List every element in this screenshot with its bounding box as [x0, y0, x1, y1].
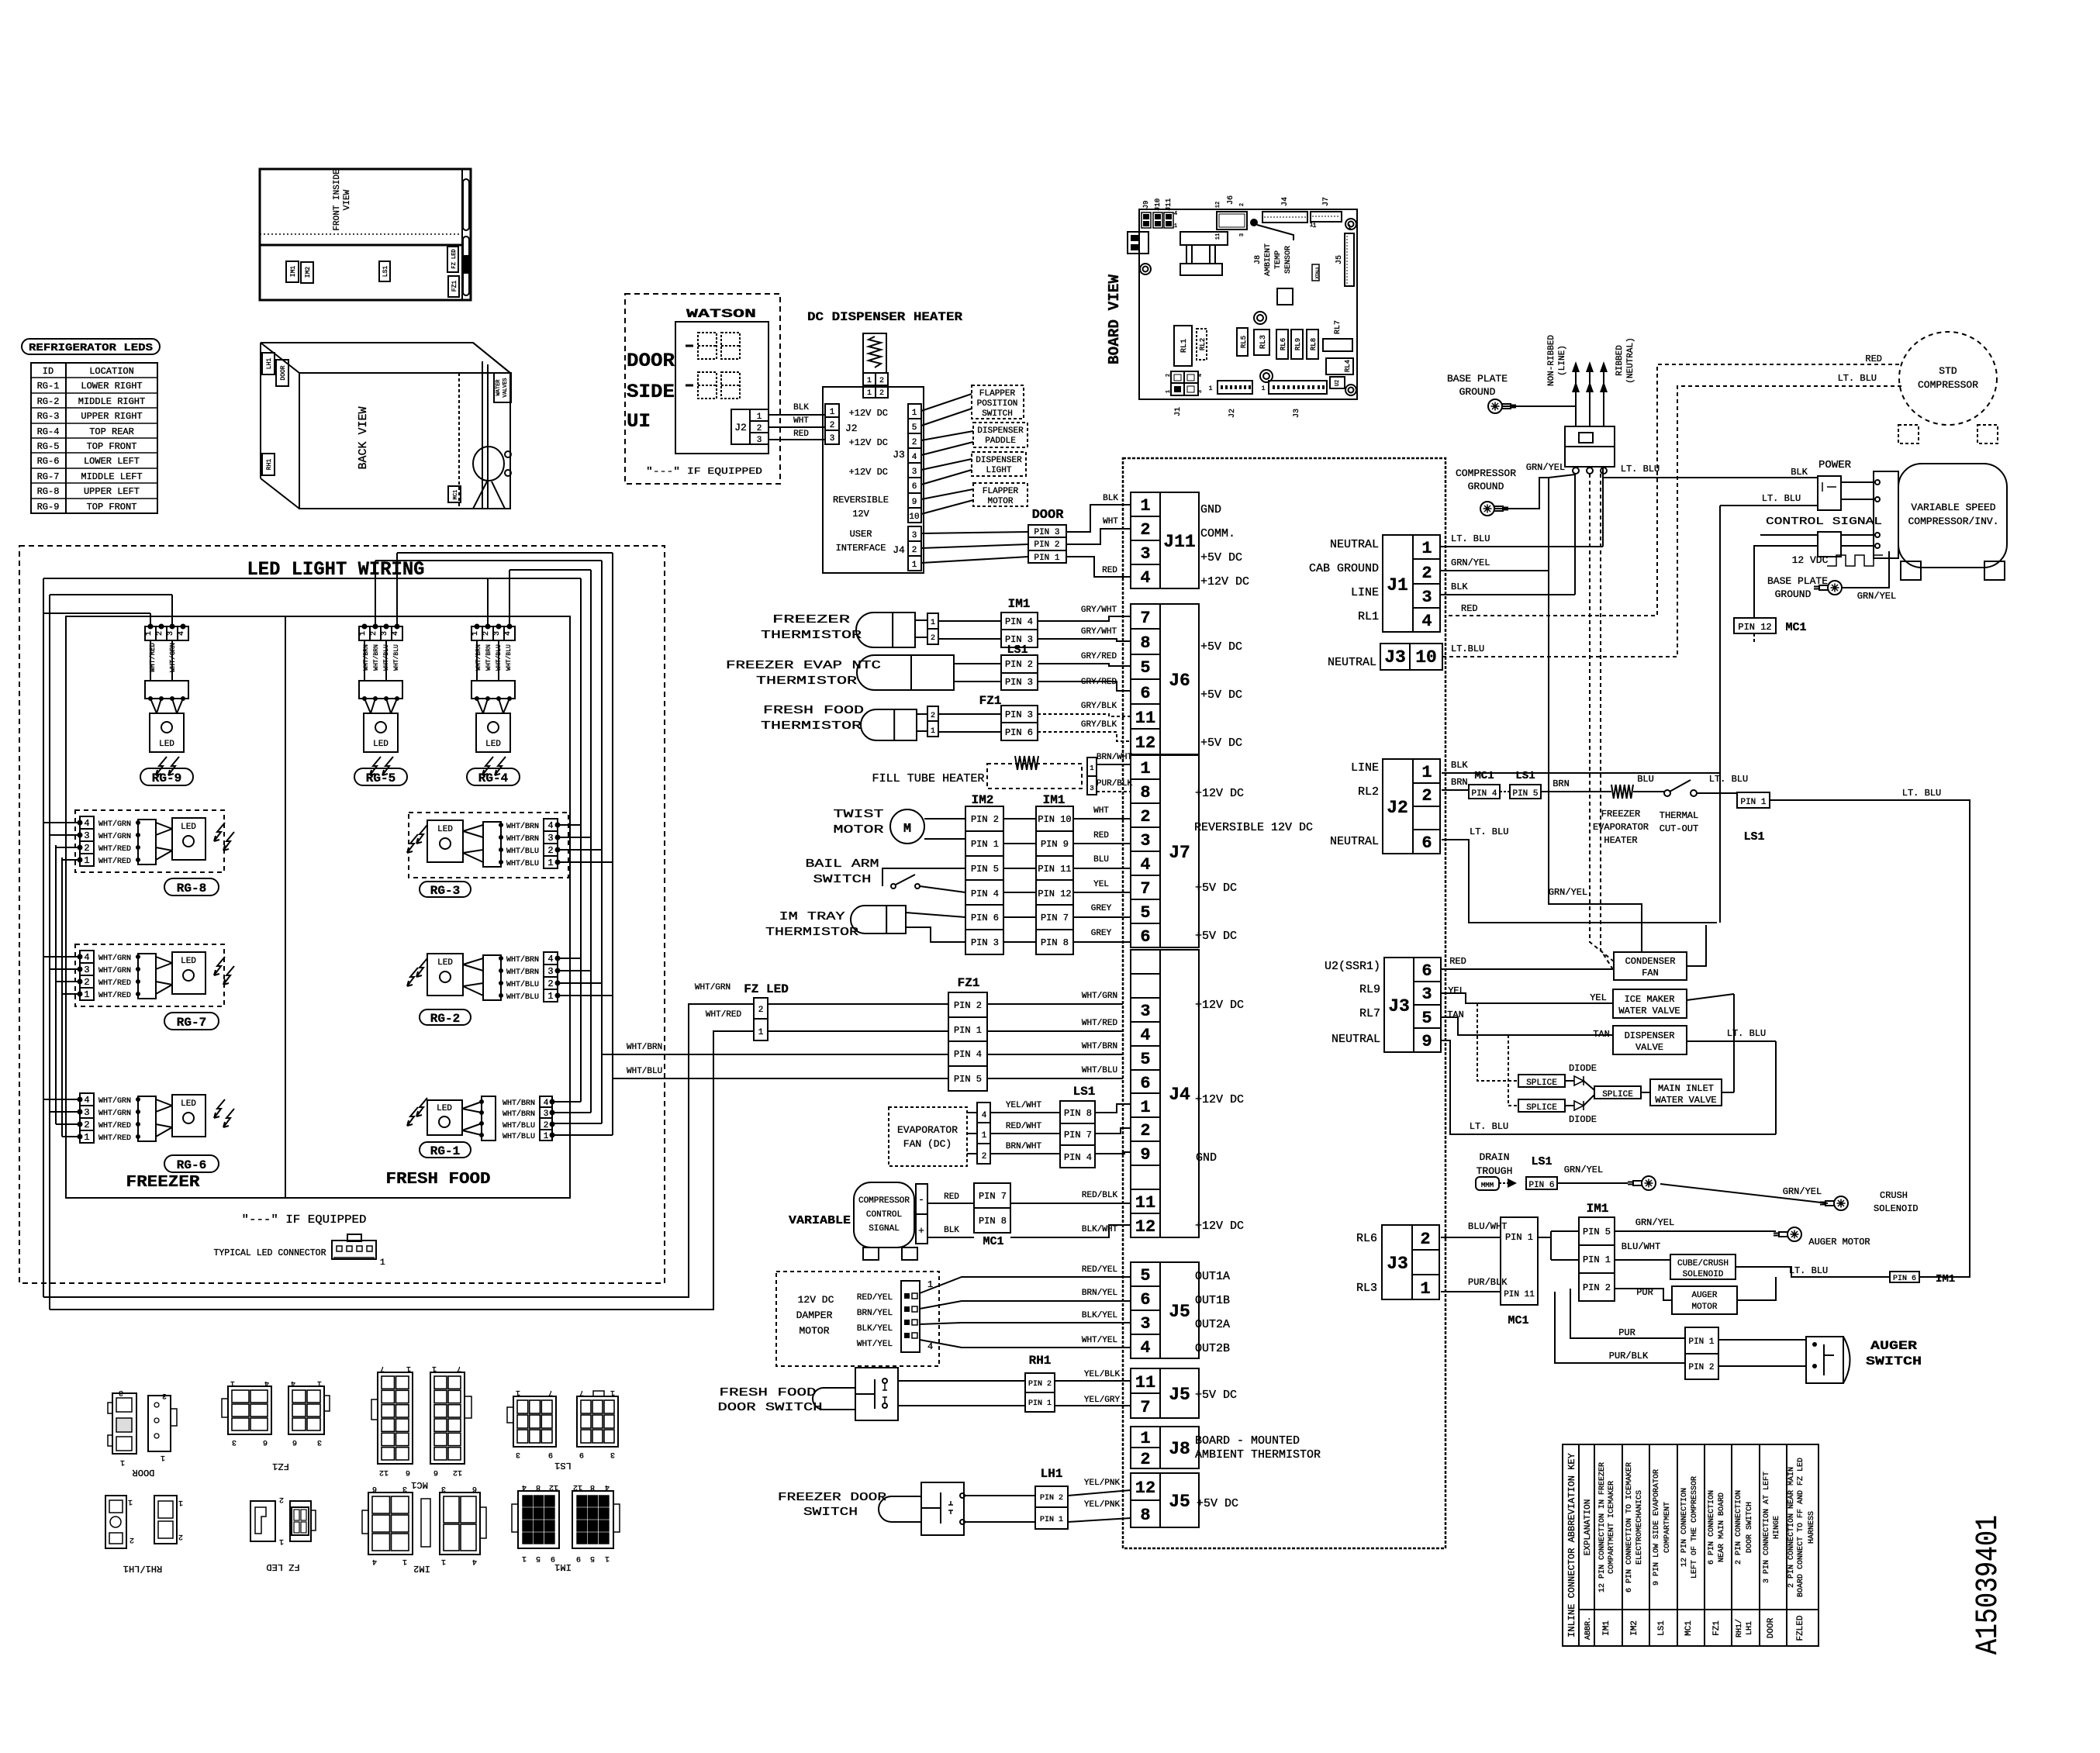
cube crush to pin6 im1: [1736, 1267, 1890, 1277]
svg-text:FREEZER: FREEZER: [1601, 809, 1640, 820]
stubs to RG-7: [43, 956, 80, 958]
J5 second connector: [1131, 1368, 1199, 1418]
svg-text:RG-2: RG-2: [37, 396, 60, 407]
svg-text:3: 3: [610, 1450, 615, 1458]
inline connector abbreviation key table: [1563, 1444, 1819, 1646]
svg-text:FRESH FOOD: FRESH FOOD: [720, 1386, 817, 1399]
svg-text:11: 11: [1215, 233, 1221, 240]
svg-text:DOOR: DOOR: [627, 350, 675, 372]
svg-text:WHT/BRN: WHT/BRN: [506, 955, 539, 964]
svg-text:LED: LED: [485, 740, 501, 749]
svg-text:WHT/GRN: WHT/GRN: [98, 820, 131, 829]
svg-text:LIGHT: LIGHT: [986, 466, 1011, 475]
ic: [1277, 288, 1293, 305]
svg-text:YEL/PNK: YEL/PNK: [1084, 1479, 1121, 1488]
svg-text:8: 8: [1140, 633, 1150, 653]
svg-text:RG-7: RG-7: [177, 1016, 206, 1030]
svg-text:WHT/BLU: WHT/BLU: [383, 644, 390, 671]
svg-text:PIN 6: PIN 6: [971, 913, 999, 923]
svg-text:-: -: [918, 1194, 924, 1206]
svg-text:9: 9: [548, 1450, 553, 1458]
svg-text:FRESH FOOD: FRESH FOOD: [763, 704, 864, 717]
svg-text:RL8: RL8: [1310, 338, 1318, 350]
pcb outline: [1139, 209, 1357, 399]
svg-text:1: 1: [1421, 763, 1432, 782]
svg-text:2: 2: [547, 978, 553, 989]
svg-text:+5V DC: +5V DC: [1200, 551, 1242, 564]
svg-text:RG-1: RG-1: [430, 1144, 460, 1158]
svg-text:ABBR.: ABBR.: [1584, 1617, 1593, 1640]
svg-text:1: 1: [1348, 224, 1352, 231]
svg-text:CAB GROUND: CAB GROUND: [1309, 562, 1379, 575]
svg-text:12: 12: [573, 1482, 582, 1491]
svg-text:IM1: IM1: [554, 1561, 572, 1572]
condenser fan: [1614, 952, 1687, 980]
svg-text:2: 2: [84, 843, 89, 854]
J3 ssr connector: [1384, 958, 1441, 1052]
svg-text:MOTOR: MOTOR: [987, 497, 1013, 506]
svg-text:SENSOR: SENSOR: [1284, 246, 1293, 274]
J4 pcb connector: [1262, 212, 1307, 223]
svg-text:4: 4: [547, 820, 553, 831]
RL4: [1326, 358, 1353, 374]
svg-text:4: 4: [291, 1379, 295, 1387]
svg-text:3: 3: [84, 830, 89, 841]
J6 pcb connector: [1217, 212, 1247, 229]
svg-text:UI: UI: [627, 410, 651, 433]
svg-text:3: 3: [1421, 985, 1432, 1004]
MC1 to IM1 wires: [1538, 1237, 1551, 1238]
svg-text:7: 7: [548, 1388, 553, 1396]
relays RL5 RL3 RL6 RL9 RL8: [1237, 328, 1248, 356]
svg-text:7: 7: [1140, 1398, 1150, 1417]
svg-text:+12V DC: +12V DC: [849, 437, 888, 448]
svg-text:2: 2: [370, 631, 378, 636]
svg-text:RL4: RL4: [1344, 360, 1352, 372]
led module RG-8: [75, 810, 224, 872]
svg-text:BLU: BLU: [1093, 855, 1109, 864]
svg-text:ICE MAKER: ICE MAKER: [1625, 994, 1675, 1005]
svg-text:WHT/BRN: WHT/BRN: [506, 834, 539, 844]
svg-text:12: 12: [549, 1482, 558, 1491]
led module RG-5: [359, 626, 402, 640]
svg-text:1: 1: [84, 1132, 89, 1143]
svg-text:DC DISPENSER HEATER: DC DISPENSER HEATER: [807, 310, 962, 324]
svg-text:LED: LED: [437, 958, 453, 968]
svg-text:6: 6: [912, 482, 917, 492]
svg-text:LH1: LH1: [266, 358, 273, 370]
svg-text:LT. BLU: LT. BLU: [1762, 493, 1801, 504]
svg-text:J3: J3: [1388, 996, 1410, 1016]
svg-text:PIN 1: PIN 1: [971, 839, 999, 850]
svg-text:9: 9: [1140, 1145, 1150, 1165]
long wht/brn wht/blu wires to J4: [602, 1054, 948, 1055]
left bus verticals: [43, 578, 44, 1297]
connector FZ1 pictogram: [228, 1386, 271, 1434]
svg-text:BASE PLATE: BASE PLATE: [1447, 373, 1508, 385]
stubs to RG-2: [557, 958, 581, 959]
svg-text:7: 7: [457, 1364, 461, 1372]
IM1 output wires to J7: [1073, 818, 1131, 820]
svg-text:YEL/BLK: YEL/BLK: [1084, 1370, 1121, 1379]
evaporator fan: [889, 1107, 967, 1166]
svg-text:PUR/BLK: PUR/BLK: [1097, 779, 1133, 789]
svg-text:DOOR SWITCH: DOOR SWITCH: [718, 1401, 823, 1414]
svg-text:RG-5: RG-5: [366, 771, 395, 785]
svg-text:THERMISTOR: THERMISTOR: [765, 926, 858, 939]
svg-text:2: 2: [1421, 564, 1432, 583]
svg-text:PIN 2: PIN 2: [1005, 659, 1033, 670]
svg-text:LT. BLU: LT. BLU: [1451, 533, 1490, 544]
label MC1: [448, 486, 461, 502]
three wires with up arrows: [1575, 371, 1577, 426]
led module RG-6: [80, 1093, 94, 1143]
svg-text:LED LIGHT WIRING: LED LIGHT WIRING: [247, 558, 425, 581]
svg-text:9: 9: [551, 1554, 555, 1562]
svg-text:1: 1: [982, 1131, 987, 1140]
svg-text:WHT/RED: WHT/RED: [98, 1121, 131, 1130]
svg-text:IM1: IM1: [1043, 793, 1066, 807]
RG-5 wires up: [375, 561, 376, 626]
svg-text:THERMISTOR: THERMISTOR: [761, 719, 862, 733]
svg-text:DOOR: DOOR: [1032, 508, 1065, 523]
svg-text:J2: J2: [734, 422, 747, 433]
wires watson to UI: [769, 414, 825, 416]
dispenser light: [972, 452, 1026, 476]
svg-text:2 PIN CONNECTION NEAR MAIN: 2 PIN CONNECTION NEAR MAIN: [1787, 1467, 1796, 1588]
svg-text:LS1: LS1: [1531, 1155, 1552, 1168]
svg-text:GRY/BLK: GRY/BLK: [1081, 720, 1117, 730]
svg-text:FLAPPER: FLAPPER: [979, 389, 1016, 399]
inner box: [66, 616, 570, 1198]
svg-text:FZ LED: FZ LED: [266, 1561, 299, 1572]
UI J2 pins: [825, 404, 839, 444]
svg-text:2: 2: [912, 438, 917, 447]
svg-text:1: 1: [120, 1458, 125, 1466]
svg-text:GRY/RED: GRY/RED: [1081, 678, 1117, 687]
svg-text:J4: J4: [1169, 1085, 1190, 1105]
svg-text:FZ LED: FZ LED: [451, 249, 458, 268]
svg-text:BLK: BLK: [1791, 467, 1808, 478]
svg-text:12: 12: [379, 1468, 389, 1476]
svg-text:U2(SSR1): U2(SSR1): [1325, 960, 1380, 973]
svg-text:CONTROL: CONTROL: [866, 1210, 902, 1220]
svg-text:WHT/RED: WHT/RED: [98, 1134, 131, 1143]
svg-text:GRN/YEL: GRN/YEL: [1635, 1217, 1674, 1228]
svg-text:GREY: GREY: [1091, 904, 1112, 913]
svg-text:3: 3: [1421, 588, 1432, 607]
RL7: [1323, 339, 1352, 351]
svg-text:U2: U2: [1335, 380, 1341, 386]
connector label IM1: [286, 261, 299, 282]
svg-text:LED: LED: [437, 825, 453, 834]
svg-text:WHT/GRN: WHT/GRN: [1082, 992, 1117, 1001]
svg-text:BLK: BLK: [944, 1226, 959, 1235]
svg-text:GND: GND: [1200, 503, 1221, 516]
svg-text:1: 1: [178, 1498, 183, 1506]
label WATER VALVES: [494, 373, 511, 402]
svg-text:OUT2A: OUT2A: [1195, 1318, 1230, 1331]
svg-text:VALVE: VALVE: [1635, 1042, 1663, 1053]
led module RG-4: [471, 626, 515, 640]
svg-text:1: 1: [1140, 1098, 1150, 1117]
svg-text:BLU/WHT: BLU/WHT: [1622, 1241, 1660, 1252]
svg-text:PIN 1: PIN 1: [1505, 1232, 1533, 1243]
svg-text:UPPER LEFT: UPPER LEFT: [84, 486, 140, 497]
svg-text:MC1: MC1: [1785, 621, 1806, 634]
svg-text:4: 4: [84, 952, 89, 963]
svg-text:DISPENSER: DISPENSER: [976, 456, 1022, 465]
svg-text:WHT/BLU: WHT/BLU: [506, 992, 539, 1002]
svg-text:BRN/YEL: BRN/YEL: [1082, 1289, 1117, 1298]
connector FZ LED pictogram: [250, 1501, 275, 1541]
svg-text:1: 1: [128, 1497, 133, 1506]
svg-text:6: 6: [1421, 833, 1432, 853]
svg-text:J5: J5: [1169, 1492, 1190, 1512]
svg-text:HINGE: HINGE: [1773, 1516, 1781, 1539]
svg-text:LT. BLU: LT. BLU: [1902, 788, 1941, 799]
svg-text:PIN 7: PIN 7: [979, 1191, 1007, 1202]
svg-text:WHT: WHT: [1103, 517, 1118, 526]
led module RG-9: [145, 626, 188, 640]
svg-text:PIN 5: PIN 5: [971, 864, 999, 875]
svg-text:FZ1: FZ1: [451, 281, 458, 292]
svg-text:YEL: YEL: [1093, 880, 1109, 889]
top bus wires: [397, 552, 613, 554]
svg-text:BLK/YEL: BLK/YEL: [857, 1324, 893, 1334]
svg-text:LINE: LINE: [1351, 586, 1379, 599]
svg-text:12 PIN CONNECTION IN FREEZER: 12 PIN CONNECTION IN FREEZER: [1598, 1462, 1607, 1593]
svg-text:LH1: LH1: [1041, 1467, 1063, 1481]
user interface box: [823, 387, 924, 573]
stubs to RG-8: [43, 822, 80, 823]
svg-text:NON-RIBBED: NON-RIBBED: [1547, 335, 1556, 386]
svg-text:RH1/LH1: RH1/LH1: [123, 1563, 162, 1574]
svg-text:LS1: LS1: [1515, 770, 1535, 782]
UI J3 pins: [908, 404, 921, 523]
svg-text:WHT/GRN: WHT/GRN: [98, 1109, 131, 1118]
svg-text:PIN 2: PIN 2: [954, 1000, 982, 1011]
svg-text:J2: J2: [845, 423, 858, 434]
svg-text:+12V DC: +12V DC: [849, 408, 888, 419]
svg-text:LS1: LS1: [1743, 830, 1764, 844]
svg-text:MC1: MC1: [1508, 1314, 1528, 1327]
svg-text:8: 8: [1140, 1506, 1150, 1525]
lt blu from ls1 pin1 to im1 pin6: [1770, 800, 1970, 1277]
usb connector left edge: [1128, 232, 1148, 254]
svg-text:RED: RED: [1449, 956, 1466, 967]
J3 neutral 10 connector: [1380, 644, 1442, 670]
svg-text:GND: GND: [1196, 1151, 1217, 1165]
svg-text:SPLICE: SPLICE: [1602, 1090, 1633, 1099]
svg-text:DISPENSER: DISPENSER: [1625, 1030, 1675, 1041]
svg-text:YEL/GRY: YEL/GRY: [1084, 1396, 1121, 1405]
svg-text:PIN 2: PIN 2: [971, 814, 999, 825]
svg-text:3: 3: [547, 833, 553, 844]
svg-text:3: 3: [830, 434, 835, 443]
svg-text:FLAPPER: FLAPPER: [983, 487, 1019, 496]
svg-text:3: 3: [441, 1484, 446, 1492]
svg-text:6: 6: [1140, 1074, 1150, 1093]
svg-text:J6: J6: [1227, 195, 1235, 205]
svg-text:4: 4: [605, 1482, 610, 1491]
svg-text:TAN: TAN: [1447, 1009, 1464, 1020]
led module RG-2: [544, 952, 558, 1002]
svg-text:GRY/WHT: GRY/WHT: [1081, 606, 1117, 615]
svg-text:PIN 11: PIN 11: [1038, 864, 1071, 875]
svg-text:6: 6: [372, 1484, 377, 1492]
svg-text:YEL: YEL: [1590, 992, 1607, 1003]
U2: [1330, 377, 1345, 388]
svg-text:INTERFACE: INTERFACE: [836, 543, 886, 554]
svg-text:RH1: RH1: [266, 459, 273, 471]
svg-text:1: 1: [1140, 759, 1150, 778]
svg-text:RED: RED: [1461, 603, 1478, 614]
svg-text:4: 4: [1421, 612, 1432, 631]
svg-text:IM1: IM1: [1587, 1202, 1609, 1216]
svg-text:PIN 6: PIN 6: [1893, 1275, 1916, 1283]
flapper position switch: [972, 385, 1024, 419]
svg-text:7: 7: [1140, 879, 1150, 899]
svg-text:PIN 4: PIN 4: [1005, 616, 1033, 627]
svg-text:2: 2: [1166, 374, 1172, 377]
svg-text:LOWER LEFT: LOWER LEFT: [84, 456, 140, 467]
svg-text:VARIABLE: VARIABLE: [789, 1214, 851, 1227]
svg-text:J5: J5: [1169, 1385, 1190, 1405]
svg-text:RED: RED: [1102, 566, 1117, 575]
svg-text:WHT/RED: WHT/RED: [706, 1010, 742, 1020]
svg-text:RED: RED: [1093, 831, 1109, 840]
blk J2 pin1 to power second input: [1442, 772, 1720, 774]
svg-text:MIDDLE LEFT: MIDDLE LEFT: [81, 471, 142, 482]
mount hole bottom: [1260, 370, 1273, 382]
std compressor: [1899, 332, 1997, 425]
svg-text:3: 3: [912, 468, 917, 477]
damper connector: [901, 1281, 920, 1352]
svg-text:OUT1B: OUT1B: [1195, 1294, 1230, 1307]
door wires to J11: [1066, 505, 1131, 532]
stubs to RG-3: [557, 824, 581, 826]
svg-text:GRY/WHT: GRY/WHT: [1081, 627, 1117, 637]
svg-text:SOLENOID: SOLENOID: [1683, 1270, 1724, 1279]
svg-text:DRAIN: DRAIN: [1479, 1151, 1509, 1163]
svg-text:4: 4: [178, 631, 186, 636]
blk from J1 pin3 to relay: [1440, 594, 1575, 595]
svg-text:6: 6: [472, 1484, 477, 1492]
svg-text:RL9: RL9: [1294, 338, 1302, 350]
svg-text:2: 2: [879, 389, 884, 398]
stubs to RG-6: [43, 1099, 80, 1100]
svg-text:PIN 3: PIN 3: [971, 937, 999, 948]
svg-text:LED: LED: [373, 740, 389, 749]
svg-text:1: 1: [1209, 385, 1213, 392]
svg-text:9 PIN LOW SIDE EVAPORATOR: 9 PIN LOW SIDE EVAPORATOR: [1653, 1469, 1661, 1586]
svg-text:1: 1: [547, 991, 553, 1002]
flapper motor: [973, 483, 1028, 506]
svg-text:2: 2: [84, 1120, 89, 1130]
svg-text:12: 12: [1135, 733, 1155, 753]
door handle slots: [463, 179, 469, 230]
svg-text:WHT/BLU: WHT/BLU: [496, 644, 503, 671]
svg-text:THERMAL: THERMAL: [1660, 810, 1698, 821]
svg-text:REVERSIBLE: REVERSIBLE: [833, 495, 889, 506]
svg-text:J2: J2: [1387, 798, 1408, 818]
svg-text:TWIST: TWIST: [834, 808, 884, 821]
svg-text:1: 1: [547, 858, 553, 868]
LED light wiring outer dashed box: [19, 546, 665, 1283]
twist motor M circle: [890, 809, 924, 844]
svg-text:RED/WHT: RED/WHT: [1006, 1122, 1042, 1131]
svg-text:SOLENOID: SOLENOID: [1874, 1203, 1919, 1214]
svg-text:WHT/BLU: WHT/BLU: [393, 644, 400, 671]
svg-text:RL3: RL3: [1259, 335, 1268, 349]
svg-text:WHT/RED: WHT/RED: [98, 844, 131, 854]
svg-text:4: 4: [1197, 374, 1204, 377]
svg-text:FREEZER: FREEZER: [772, 613, 850, 626]
svg-text:9: 9: [576, 1554, 581, 1562]
svg-text:BACK VIEW: BACK VIEW: [357, 406, 370, 469]
J2 pin6 lt blu: [1442, 840, 1717, 923]
svg-text:RL5: RL5: [1240, 336, 1248, 348]
svg-text:9: 9: [1421, 1032, 1432, 1051]
svg-text:TOP REAR: TOP REAR: [89, 426, 134, 437]
svg-text:9: 9: [579, 1450, 584, 1458]
svg-text:HEATER: HEATER: [1604, 835, 1637, 846]
svg-text:PIN 4: PIN 4: [1471, 789, 1497, 799]
svg-text:IM2: IM2: [1630, 1620, 1639, 1636]
svg-text:1: 1: [1174, 223, 1177, 229]
svg-text:PIN 12: PIN 12: [1738, 622, 1771, 633]
svg-text:6 PIN CONNECTION: 6 PIN CONNECTION: [1708, 1490, 1716, 1565]
mount hole mid: [1254, 312, 1266, 324]
svg-text:PIN 5: PIN 5: [954, 1074, 982, 1085]
svg-text:FZ1: FZ1: [979, 694, 1002, 708]
svg-text:PUR/BLK: PUR/BLK: [1468, 1277, 1508, 1288]
mount hole top right: [1345, 219, 1356, 229]
svg-text:WHT/BRN: WHT/BRN: [1082, 1042, 1117, 1051]
svg-text:2: 2: [1140, 1121, 1150, 1140]
svg-text:2: 2: [912, 546, 917, 555]
svg-text:J8: J8: [1169, 1439, 1190, 1459]
dashed red wire to std compressor: [1445, 364, 1899, 616]
svg-text:4: 4: [982, 1111, 987, 1120]
svg-text:PIN 8: PIN 8: [1064, 1108, 1092, 1119]
svg-text:AUGER MOTOR: AUGER MOTOR: [1808, 1237, 1870, 1247]
svg-text:NEUTRAL: NEUTRAL: [1331, 1033, 1380, 1046]
svg-text:MOTOR: MOTOR: [834, 823, 884, 837]
svg-text:LED: LED: [181, 1099, 196, 1109]
svg-text:2: 2: [544, 1121, 549, 1130]
svg-text:TOP FRONT: TOP FRONT: [87, 441, 137, 452]
svg-text:RG-8: RG-8: [37, 486, 60, 497]
svg-text:SWITCH: SWITCH: [982, 409, 1013, 419]
svg-text:MOTOR: MOTOR: [799, 1325, 829, 1337]
svg-text:GROUND: GROUND: [1459, 386, 1496, 398]
svg-text:WHT/BRN: WHT/BRN: [363, 644, 370, 671]
svg-text:BLK/YEL: BLK/YEL: [1082, 1311, 1117, 1320]
ice maker water valve: [1613, 989, 1687, 1018]
svg-text:+12V DC: +12V DC: [1195, 787, 1244, 800]
svg-text:1: 1: [1140, 496, 1150, 516]
svg-text:WATER VALVE: WATER VALVE: [1618, 1006, 1680, 1016]
svg-text:BLK: BLK: [793, 403, 809, 412]
svg-text:COMPRESSOR/INV.: COMPRESSOR/INV.: [1908, 516, 1998, 527]
svg-text:1: 1: [912, 561, 917, 570]
svg-text:FZ1: FZ1: [272, 1461, 289, 1472]
svg-text:WATER: WATER: [496, 379, 502, 396]
pin 12 MC1: [1734, 618, 1776, 633]
svg-text:12V DC: 12V DC: [798, 1294, 834, 1306]
